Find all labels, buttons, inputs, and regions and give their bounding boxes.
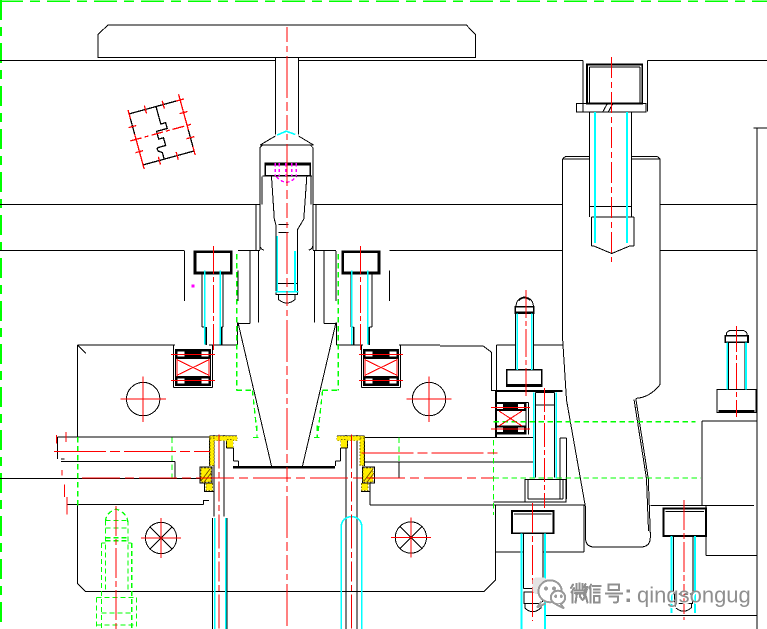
cyan screw E	[517, 313, 532, 370]
bottom screw H shank	[674, 536, 694, 594]
sprue shaft	[275, 58, 298, 135]
shoulder screw E head band	[515, 307, 534, 313]
small red section ticks left edge	[57, 432, 67, 515]
cyan chevron under sprue shaft	[277, 131, 295, 135]
cone right diagonal	[303, 323, 337, 467]
screw E centerline	[525, 290, 527, 397]
glyph xin	[590, 585, 601, 603]
wechat logo eyes	[544, 586, 563, 598]
bearing bore walls left	[173, 345, 212, 388]
center insert bottom thick line	[233, 466, 335, 469]
right ejector pin seat steps	[336, 436, 365, 466]
cyan hole lines sprue screw	[276, 236, 299, 292]
screw G centerline	[736, 326, 738, 417]
top right bolt shank	[590, 112, 632, 217]
top right bolt tip chamfer	[594, 246, 630, 254]
bore walls below B-plate	[259, 250, 315, 322]
green vertical guide lines	[78, 437, 494, 515]
left outer wear block	[200, 467, 214, 491]
support pillar top double edge	[563, 156, 661, 159]
left screw head	[195, 252, 231, 273]
horizontal red line y=451.5	[54, 452, 498, 453]
stripper thin plates right	[365, 437, 534, 478]
left guide bushing bearing	[176, 350, 211, 386]
bottom screw F shank	[524, 533, 544, 588]
wechat logo big bubble	[537, 580, 565, 608]
bottom screw H stub	[675, 594, 693, 604]
left screw collar	[206, 327, 222, 345]
interlock red ticks	[124, 93, 199, 170]
right guide bushing bearing	[364, 350, 399, 386]
A-plate bottom line y=203	[0, 204, 757, 206]
CJK watermark glyphs (drawn): emboss + gray	[571, 584, 624, 605]
shoulder screw E shank	[516, 313, 534, 370]
main centerline	[286, 27, 288, 629]
screw H centerline	[683, 500, 685, 620]
guide pin hole circle right	[412, 382, 445, 415]
stripper thin plates left	[0, 437, 209, 505]
right screw D centerline	[360, 246, 362, 350]
cone left diagonal	[238, 323, 272, 467]
green horizontal lines right	[493, 422, 700, 478]
top right bolt washer	[577, 104, 646, 113]
sprue screw tip dome	[278, 295, 295, 303]
left ejector pin seat steps	[210, 436, 239, 466]
cyan spacer	[534, 393, 557, 479]
wechat logo highlight square	[533, 578, 548, 595]
bottom screw F stub	[524, 592, 543, 604]
circle crosshairs	[121, 376, 166, 421]
green selection border top	[0, 0, 767, 2]
interlock zigzag	[146, 105, 174, 160]
shoulder screw E collar	[507, 370, 542, 387]
top locating plate bottom line	[98, 57, 476, 59]
sprue screw head flange line	[263, 175, 312, 177]
green cone hidden line right vertical	[337, 254, 339, 390]
spacer foot block	[525, 479, 566, 501]
support pillar outline	[563, 159, 661, 547]
cyan screw H	[672, 536, 696, 613]
interlock red mid dash	[130, 124, 193, 141]
cyan right screw holes	[352, 271, 368, 345]
green selection border left	[0, 0, 2, 629]
glyph hao	[606, 585, 622, 603]
right mid block top lines	[497, 345, 563, 438]
cyan screw G	[727, 342, 746, 389]
spacer centerline	[544, 388, 546, 508]
cone piece top edge verticals	[238, 250, 337, 345]
cyan left screw holes	[205, 271, 221, 345]
guide pin hole circle left	[127, 382, 160, 415]
sprue bushing bore double walls	[262, 176, 311, 204]
magenta thread dashes on sprue	[275, 163, 296, 182]
interlock red edges	[129, 100, 194, 165]
lower plate lines right	[370, 502, 757, 556]
bottom screw H head	[664, 509, 707, 537]
cyan left pin hole	[215, 518, 226, 629]
sprue screw tip block	[276, 284, 297, 295]
lower circle right with spokes	[395, 522, 426, 553]
shoulder screw E dome head	[516, 297, 533, 307]
sprue bushing head	[260, 145, 314, 250]
right screw head	[343, 252, 379, 273]
right small screw G shank	[728, 342, 745, 389]
cyan top bolt holes	[595, 112, 627, 243]
right mid bearing	[495, 403, 529, 435]
left screw C centerline	[212, 246, 214, 350]
right ejector pin	[346, 435, 357, 629]
sprue bushing head shoulders	[261, 136, 314, 145]
cyan screw F	[522, 533, 546, 629]
support pillar right lower edge double	[634, 398, 650, 533]
right small screw G dome	[727, 330, 747, 335]
magenta dot left	[192, 285, 195, 288]
core block left/bottom edges	[78, 345, 496, 592]
lower circle left with spokes	[146, 522, 177, 553]
top locating plate	[98, 25, 476, 58]
svg-text:qingsongug: qingsongug	[637, 582, 751, 607]
bearing red lines right-mid	[491, 408, 530, 430]
sprue screw head	[265, 164, 310, 176]
B-band bore walls	[256, 205, 316, 251]
green cone hidden line right jog and slant	[314, 390, 339, 437]
right screw shank	[351, 273, 372, 327]
green cone hidden line left vertical	[236, 254, 238, 390]
long red phantom line y=477.9	[82, 477, 493, 479]
right small screw G band	[725, 336, 748, 343]
B-plate bottom line y=250.4	[0, 249, 757, 251]
bottom screw F cap	[525, 604, 541, 612]
screw F centerline	[532, 503, 534, 621]
left screw counterbore walls	[185, 251, 238, 301]
right columns outline	[545, 128, 767, 629]
spacer cylinder	[536, 393, 555, 478]
bottom right plate verticals	[659, 383, 661, 385]
yellow wear plates	[201, 436, 373, 490]
bearing red lines right	[359, 355, 403, 381]
right outer wear block	[361, 467, 375, 505]
support pillar right concave fillet	[636, 384, 660, 398]
top right bolt head	[587, 64, 642, 103]
top right bolt counterbore	[583, 61, 648, 112]
colon	[627, 589, 630, 602]
left pin centerline	[218, 435, 220, 629]
core block top-left corner chamfer	[78, 345, 86, 353]
yellow hatch marks	[201, 469, 374, 483]
blocks beside stem	[560, 438, 584, 552]
right small screw G boss	[717, 390, 756, 413]
sprue screw body	[272, 177, 307, 284]
left screw shank	[202, 273, 223, 327]
left ejector pin	[212, 435, 227, 629]
right pin centerline	[351, 435, 353, 629]
green cone hidden line left jog and slant	[237, 390, 259, 437]
top right bolt thread stub	[592, 217, 635, 246]
core block outline	[78, 345, 496, 438]
top bolt centerline	[610, 57, 612, 262]
bottom screw H cap	[676, 604, 692, 612]
bearing bore walls right	[361, 345, 400, 388]
glyph wei	[571, 584, 588, 603]
sprue screw thread ticks	[278, 225, 288, 233]
interlock square outline	[129, 100, 194, 165]
bottom screw F head	[512, 511, 554, 533]
cyan right pin hole with dome	[341, 517, 362, 629]
right screw counterbore walls	[336, 251, 389, 301]
bushing bottom chamfer arcs	[260, 246, 313, 250]
green pin centerline	[115, 506, 117, 629]
top clamp plate top surface	[0, 60, 767, 62]
bearing red lines left	[171, 355, 215, 381]
green return pin (hidden)	[97, 509, 137, 629]
right screw collar	[354, 327, 370, 345]
